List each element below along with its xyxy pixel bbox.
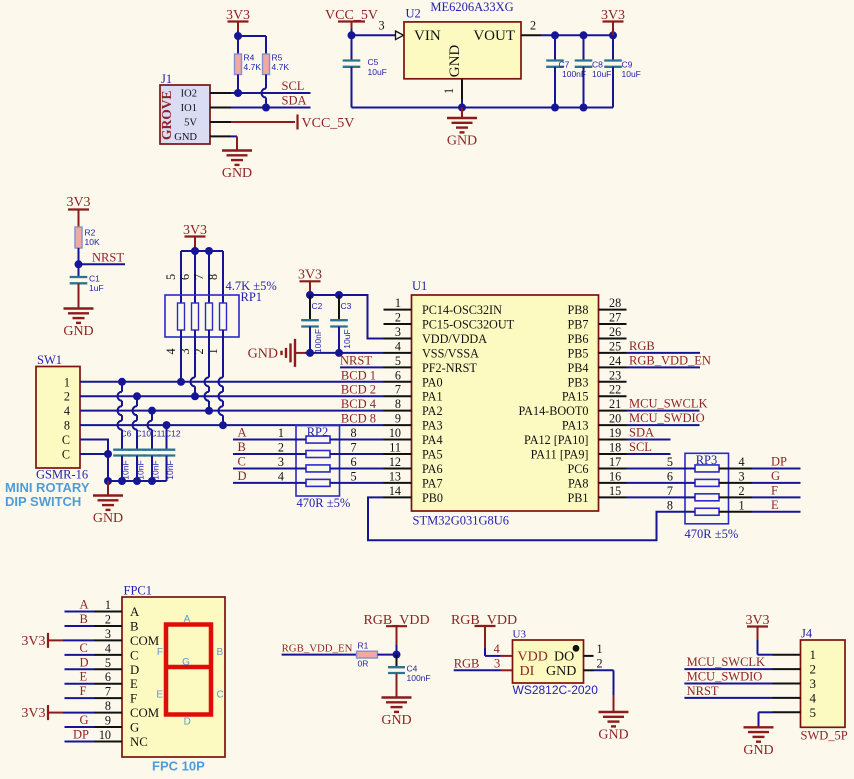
svg-text:4.7K: 4.7K xyxy=(244,62,262,72)
wire net BCD_4 (SW1 pin 4) xyxy=(80,397,384,411)
resistor R2 xyxy=(75,227,100,248)
capacitor C8 xyxy=(575,31,612,111)
ground (U2) xyxy=(447,108,477,149)
pin 19 U1 xyxy=(599,426,627,440)
ground (U3) xyxy=(598,695,628,743)
svg-text:COM: COM xyxy=(130,634,159,648)
pin 12 U1 xyxy=(384,455,412,469)
svg-text:4: 4 xyxy=(810,690,817,705)
svg-text:3V3: 3V3 xyxy=(298,267,322,282)
svg-text:PB1: PB1 xyxy=(567,491,588,505)
svg-text:1: 1 xyxy=(810,647,817,662)
pin 13 U1 xyxy=(384,469,412,483)
pin 15 U1 xyxy=(599,484,627,498)
wire net F (FPC1 pin 7) xyxy=(65,684,123,699)
transistor U3 WS2812C-2020 body xyxy=(513,629,599,698)
svg-text:PA3: PA3 xyxy=(422,419,443,433)
svg-text:MCU_SWCLK: MCU_SWCLK xyxy=(687,655,765,669)
svg-text:22: 22 xyxy=(609,383,621,397)
svg-text:4: 4 xyxy=(494,642,501,656)
pin 7 U1 xyxy=(384,383,412,397)
svg-text:C: C xyxy=(80,641,88,655)
svg-text:9: 9 xyxy=(395,412,401,426)
capacitor C9 xyxy=(604,31,641,107)
svg-text:PA8: PA8 xyxy=(568,476,589,490)
svg-text:VIN: VIN xyxy=(414,28,441,44)
capacitor C5 xyxy=(343,35,387,107)
svg-text:C8: C8 xyxy=(592,60,603,70)
wire RP1 pin 2 down with hops xyxy=(205,330,209,411)
power flag 3V3 (J1 pullups) xyxy=(226,8,250,31)
svg-text:J1: J1 xyxy=(161,72,172,86)
svg-text:5V: 5V xyxy=(184,118,197,129)
wire U1 pin 15 to RP3 pin 7 xyxy=(627,484,696,498)
svg-text:U3: U3 xyxy=(513,629,527,641)
ground (C1) xyxy=(63,283,93,339)
svg-text:21: 21 xyxy=(609,397,621,411)
svg-text:GND: GND xyxy=(63,324,93,339)
capacitor C11 xyxy=(143,407,166,481)
svg-text:A: A xyxy=(238,426,247,440)
node NRST junction xyxy=(75,260,83,268)
wire RP2 pin 6 to U1 xyxy=(330,455,384,469)
wire RP1 pin 3 down with hop xyxy=(191,330,196,396)
wire 3V3 rail to U1 pin3 xyxy=(310,295,384,339)
svg-text:C10: C10 xyxy=(136,429,152,439)
capacitor C7 xyxy=(546,31,586,111)
svg-text:SDA: SDA xyxy=(629,426,654,440)
svg-text:4: 4 xyxy=(278,469,284,483)
pin 22 U1 xyxy=(599,383,627,397)
svg-text:F: F xyxy=(157,647,163,658)
svg-text:10K: 10K xyxy=(85,237,100,247)
wire net MCU_SWCLK (pin21) xyxy=(627,397,708,411)
wire xyxy=(78,248,80,277)
seven segment display graphic xyxy=(156,614,223,728)
svg-text:C2: C2 xyxy=(312,301,323,311)
svg-text:D: D xyxy=(80,655,89,669)
svg-text:G: G xyxy=(80,713,89,727)
svg-text:NRST: NRST xyxy=(340,353,372,367)
svg-text:10: 10 xyxy=(99,728,111,742)
pin 1 U1 xyxy=(384,296,412,310)
svg-text:1: 1 xyxy=(278,426,284,440)
wire PB0 to RP3 pin 8 xyxy=(368,497,695,540)
wire net G (FPC1 pin 9) xyxy=(65,713,123,728)
ground (C2/C3 sideways) xyxy=(248,339,295,367)
svg-text:470R ±5%: 470R ±5% xyxy=(297,496,351,510)
svg-text:F: F xyxy=(80,684,87,698)
wire net C (RP2 pin 3) xyxy=(233,454,306,469)
svg-text:BCD 8: BCD 8 xyxy=(341,412,376,426)
svg-text:100nF: 100nF xyxy=(313,329,323,353)
svg-text:9: 9 xyxy=(105,714,111,728)
svg-text:MCU_SWCLK: MCU_SWCLK xyxy=(629,397,707,411)
svg-text:A: A xyxy=(80,598,89,612)
svg-text:PA7: PA7 xyxy=(422,476,443,490)
svg-text:C9: C9 xyxy=(622,60,633,70)
power flag RGB_VDD (U3) xyxy=(451,613,517,648)
svg-text:5: 5 xyxy=(810,705,817,720)
wire net SDA (pin19) xyxy=(627,426,671,440)
svg-text:11: 11 xyxy=(389,441,401,455)
wire net BCD_8 (SW1 pin 8) xyxy=(80,412,384,426)
svg-text:7: 7 xyxy=(105,685,111,699)
svg-text:BCD 4: BCD 4 xyxy=(341,397,377,411)
svg-text:5: 5 xyxy=(105,656,111,670)
svg-text:10uF: 10uF xyxy=(368,67,387,77)
wire RP2 pin 5 to U1 xyxy=(330,469,384,483)
wire net DP (RP3 pin 4) xyxy=(719,454,801,469)
svg-text:RGB: RGB xyxy=(629,339,655,353)
svg-text:RGB: RGB xyxy=(454,656,480,670)
svg-text:6: 6 xyxy=(395,368,401,382)
pin 28 U1 xyxy=(599,296,627,310)
pin 2 U2 VOUT xyxy=(521,19,613,36)
svg-text:27: 27 xyxy=(609,311,621,325)
svg-text:R5: R5 xyxy=(272,53,283,63)
wire SW1 C pins to ground xyxy=(80,440,108,481)
wire net RGB (pin25) xyxy=(627,339,701,353)
wire net D (FPC1 pin 5) xyxy=(65,655,123,670)
svg-text:10uF: 10uF xyxy=(342,329,352,348)
svg-text:3: 3 xyxy=(105,627,111,641)
node SDA junction xyxy=(262,104,270,112)
svg-text:8: 8 xyxy=(395,397,401,411)
label MINI ROTARY DIP SWITCH xyxy=(5,480,90,509)
ground (J4) xyxy=(743,727,773,758)
wire net G (RP3 pin 3) xyxy=(719,469,801,484)
resistor R1 xyxy=(357,641,378,669)
svg-text:C11: C11 xyxy=(151,429,166,439)
wire J1 pin GND xyxy=(210,135,237,137)
svg-text:13: 13 xyxy=(389,469,401,483)
svg-text:1: 1 xyxy=(64,375,70,389)
node RP1 rail junctions xyxy=(191,247,213,255)
svg-text:E: E xyxy=(156,690,163,701)
wire net BCD_2 (SW1 pin 2) xyxy=(80,383,384,397)
power flag 3V3 (FPC1 pin 8) xyxy=(21,699,122,721)
svg-text:23: 23 xyxy=(609,368,621,382)
wire J4 pin5 to ground xyxy=(759,712,801,727)
svg-text:3: 3 xyxy=(739,469,745,483)
pin 8 U1 xyxy=(384,397,412,411)
wire J1 pin IO2 xyxy=(210,92,238,94)
svg-text:16: 16 xyxy=(609,469,621,483)
svg-text:GND: GND xyxy=(743,743,773,758)
pin 21 U1 xyxy=(599,397,627,411)
svg-text:GND: GND xyxy=(381,713,411,728)
wire net MCU_SWDIO (J4 pin3) xyxy=(684,670,800,684)
svg-text:PA1: PA1 xyxy=(422,390,443,404)
node C2 C3 bottom junctions xyxy=(306,349,343,357)
svg-text:C3: C3 xyxy=(341,301,352,311)
svg-text:1: 1 xyxy=(395,296,401,310)
svg-text:C: C xyxy=(62,433,70,447)
svg-text:J4: J4 xyxy=(801,627,813,641)
svg-text:17: 17 xyxy=(609,455,621,469)
pin 2 U3 GND xyxy=(584,656,614,695)
capacitor C12 xyxy=(158,421,181,481)
svg-text:8: 8 xyxy=(206,274,220,280)
pin 24 U1 xyxy=(599,354,627,368)
svg-text:25: 25 xyxy=(609,339,621,353)
svg-text:4: 4 xyxy=(105,641,111,655)
wire net DP (FPC1 pin 10) xyxy=(65,727,123,742)
pin 20 U1 xyxy=(599,412,627,426)
connector J1 xyxy=(159,72,210,144)
wire net E (RP3 pin 1) xyxy=(719,498,801,513)
node RP1 bottom junctions xyxy=(177,378,227,429)
wire U1 pin 17 to RP3 pin 5 xyxy=(627,455,696,469)
svg-text:GND: GND xyxy=(248,346,278,361)
svg-text:F: F xyxy=(130,692,137,706)
pin 4 U1 xyxy=(384,339,412,353)
svg-text:2: 2 xyxy=(105,612,111,626)
svg-text:MCU_SWDIO: MCU_SWDIO xyxy=(629,411,705,425)
svg-text:10: 10 xyxy=(389,426,401,440)
wire net NRST (J4 pin4) xyxy=(684,684,800,698)
wire R5 to SDA with hop over SCL xyxy=(262,75,267,104)
wire to U3 pin 4 xyxy=(485,642,513,656)
op-amp U2 ME6206A33XG body xyxy=(404,0,521,79)
svg-text:C1: C1 xyxy=(89,274,100,284)
wire net MCU_SWDIO (pin20) xyxy=(627,411,705,425)
svg-text:4: 4 xyxy=(739,455,745,469)
svg-text:RP1: RP1 xyxy=(241,290,263,304)
svg-text:5: 5 xyxy=(351,469,357,483)
capacitor C6 xyxy=(113,378,131,481)
svg-text:3: 3 xyxy=(379,19,385,33)
wire net B (RP2 pin 2) xyxy=(233,440,306,455)
wire net NRST (U1) xyxy=(340,353,384,367)
svg-text:C12: C12 xyxy=(165,429,181,439)
wire net MCU_SWCLK (J4 pin2) xyxy=(684,655,800,669)
svg-text:PA12 [PA10]: PA12 [PA10] xyxy=(524,433,588,447)
svg-text:100nF: 100nF xyxy=(407,673,431,683)
svg-text:U2: U2 xyxy=(406,7,421,21)
svg-text:VDD/VDDA: VDD/VDDA xyxy=(422,332,487,346)
svg-text:10uF: 10uF xyxy=(622,69,641,79)
svg-text:PA0: PA0 xyxy=(422,375,443,389)
wire net B (FPC1 pin 2) xyxy=(65,612,123,627)
wire xyxy=(352,29,396,35)
svg-text:FPC 10P: FPC 10P xyxy=(152,759,205,774)
svg-text:MCU_SWDIO: MCU_SWDIO xyxy=(687,670,763,684)
svg-text:4: 4 xyxy=(395,339,401,353)
svg-text:PB0: PB0 xyxy=(422,491,443,505)
svg-text:PC14-OSC32IN: PC14-OSC32IN xyxy=(422,303,502,317)
node 3V3/R4/R5 junction xyxy=(234,32,242,40)
svg-text:E: E xyxy=(80,670,88,684)
capacitor C3 xyxy=(330,295,352,353)
svg-text:4: 4 xyxy=(164,348,178,354)
svg-text:R1: R1 xyxy=(358,641,369,651)
svg-text:G: G xyxy=(130,721,139,735)
svg-text:2: 2 xyxy=(278,441,284,455)
svg-text:8: 8 xyxy=(105,699,111,713)
ground (J1) xyxy=(222,136,252,181)
capacitor C2 xyxy=(301,295,323,353)
pin 17 U1 xyxy=(599,455,627,469)
wire net BCD_1 (SW1 pin 1) xyxy=(80,368,384,382)
svg-text:C4: C4 xyxy=(407,664,418,674)
svg-text:SCL: SCL xyxy=(282,79,305,93)
wire RP1 pin 4 down xyxy=(180,330,182,382)
power flag 3V3 (U2 output) xyxy=(601,8,625,35)
svg-text:D: D xyxy=(130,663,139,677)
label FPC 10P xyxy=(152,759,205,774)
svg-text:B: B xyxy=(238,440,246,454)
wire net RGB_VDD_EN (R1) xyxy=(282,643,357,655)
svg-text:RP2: RP2 xyxy=(307,425,329,439)
svg-text:DP: DP xyxy=(771,454,787,468)
svg-text:1: 1 xyxy=(105,598,111,612)
svg-text:STM32G031G8U6: STM32G031G8U6 xyxy=(413,514,510,528)
svg-text:100nF: 100nF xyxy=(562,69,586,79)
pin 10 U1 xyxy=(384,426,412,440)
svg-text:SW1: SW1 xyxy=(37,353,62,367)
pin 25 U1 xyxy=(599,339,627,353)
wire net D (RP2 pin 4) xyxy=(233,469,306,484)
svg-text:IO1: IO1 xyxy=(181,103,197,114)
node C pins junction xyxy=(104,450,112,458)
svg-text:IO2: IO2 xyxy=(181,89,197,100)
svg-text:PB8: PB8 xyxy=(567,303,588,317)
svg-text:C: C xyxy=(62,448,70,462)
power flag VCC_5V (U2 input) xyxy=(325,8,378,29)
svg-text:PA6: PA6 xyxy=(422,462,443,476)
svg-text:DIP SWITCH: DIP SWITCH xyxy=(5,494,81,509)
svg-text:8: 8 xyxy=(64,419,70,433)
node U2 GND junction xyxy=(458,104,466,112)
power flag 3V3 (R2) xyxy=(66,195,90,227)
wire net A (FPC1 pin 1) xyxy=(65,598,123,613)
wire RP2 pin 7 to U1 xyxy=(330,441,384,455)
node SCL junction xyxy=(234,89,242,97)
svg-text:PB4: PB4 xyxy=(567,361,588,375)
svg-text:C: C xyxy=(238,454,246,468)
resistor R5 xyxy=(263,53,290,75)
power flag 3V3 (RP1) xyxy=(183,223,207,251)
switch SW1 GSMR-16 body xyxy=(36,353,88,482)
svg-text:G: G xyxy=(182,657,190,668)
node RGB_VDD junction xyxy=(393,651,401,659)
svg-text:PA11 [PA9]: PA11 [PA9] xyxy=(531,448,589,462)
wire xyxy=(238,31,266,54)
svg-text:DI: DI xyxy=(520,664,535,679)
svg-text:3: 3 xyxy=(278,455,284,469)
svg-text:7: 7 xyxy=(192,274,206,280)
pin 1 U2 GND xyxy=(442,79,462,108)
capacitor C4 xyxy=(388,655,431,683)
wire xyxy=(396,645,398,655)
svg-text:3: 3 xyxy=(810,676,817,691)
svg-text:DP: DP xyxy=(73,727,89,741)
svg-text:PB5: PB5 xyxy=(567,346,588,360)
wire xyxy=(378,654,397,656)
svg-text:C5: C5 xyxy=(368,57,379,67)
pin 23 U1 xyxy=(599,368,627,382)
svg-text:SDA: SDA xyxy=(282,94,307,108)
svg-text:BCD 1: BCD 1 xyxy=(341,368,376,382)
svg-text:8: 8 xyxy=(351,426,357,440)
svg-text:10nF: 10nF xyxy=(136,460,146,479)
svg-text:19: 19 xyxy=(609,426,621,440)
svg-text:NRST: NRST xyxy=(687,684,719,698)
svg-text:6: 6 xyxy=(178,274,192,280)
svg-text:6: 6 xyxy=(667,469,673,483)
svg-text:7: 7 xyxy=(351,441,357,455)
svg-text:GND: GND xyxy=(174,132,197,143)
wire net SCL xyxy=(238,79,311,93)
svg-text:MINI ROTARY: MINI ROTARY xyxy=(5,480,90,495)
power flag 3V3 (FPC1 pin 3) xyxy=(21,627,122,649)
wire net RGB_VDD_EN (pin24) xyxy=(627,353,711,367)
svg-text:B: B xyxy=(80,612,88,626)
op-amp U1 STM32G031G8U6 body xyxy=(412,279,599,528)
wire net C (FPC1 pin 4) xyxy=(65,641,123,656)
svg-text:FPC1: FPC1 xyxy=(124,584,153,598)
svg-text:VCC_5V: VCC_5V xyxy=(302,116,355,131)
pin 1 U3 DO xyxy=(584,642,603,656)
pin 27 U1 xyxy=(599,311,627,325)
svg-text:C: C xyxy=(217,690,224,701)
svg-text:PA14-BOOT0: PA14-BOOT0 xyxy=(519,404,589,418)
wire RP2 pin 8 to U1 xyxy=(330,426,384,440)
wire J1 pin IO1 / net SDA xyxy=(210,94,311,108)
svg-text:R2: R2 xyxy=(85,228,96,238)
svg-text:7: 7 xyxy=(395,383,401,397)
svg-text:28: 28 xyxy=(609,296,621,310)
resistor R4 xyxy=(235,36,262,75)
pin 18 U1 xyxy=(599,441,627,455)
svg-text:10nF: 10nF xyxy=(165,460,175,479)
svg-text:10uF: 10uF xyxy=(592,69,611,79)
svg-text:2: 2 xyxy=(739,484,745,498)
pin 11 U1 xyxy=(384,441,412,455)
svg-text:NRST: NRST xyxy=(92,250,124,264)
wire net RGB (U3 pin 3) xyxy=(454,656,513,670)
svg-text:PA13: PA13 xyxy=(562,419,589,433)
wire net A (RP2 pin 1) xyxy=(233,426,306,441)
resistor network RP2 xyxy=(296,425,350,510)
svg-text:C6: C6 xyxy=(121,429,132,439)
power flag RGB_VDD (R1) xyxy=(363,613,429,645)
svg-text:6: 6 xyxy=(351,455,357,469)
svg-text:2: 2 xyxy=(597,656,603,670)
svg-text:14: 14 xyxy=(389,484,401,498)
svg-text:3: 3 xyxy=(395,325,401,339)
svg-text:GND: GND xyxy=(447,45,463,78)
svg-text:F: F xyxy=(771,483,778,497)
svg-text:12: 12 xyxy=(389,455,401,469)
pin 6 U1 xyxy=(384,368,412,382)
svg-text:U1: U1 xyxy=(412,279,427,293)
svg-text:10nF: 10nF xyxy=(121,460,131,479)
svg-text:COM: COM xyxy=(130,706,159,720)
svg-text:4.7K: 4.7K xyxy=(272,62,290,72)
node ground rail junctions xyxy=(104,477,156,485)
svg-text:3: 3 xyxy=(494,656,500,670)
wire RP1 pin 1 down with hops xyxy=(219,330,224,425)
svg-text:PA2: PA2 xyxy=(422,404,443,418)
svg-text:1: 1 xyxy=(739,498,745,512)
svg-text:1uF: 1uF xyxy=(89,283,104,293)
wire 3V3 to J4 pin1 xyxy=(758,640,801,655)
power flag 3V3 (J4) xyxy=(745,613,769,640)
pin 3 arrow U2 VIN xyxy=(379,19,404,40)
